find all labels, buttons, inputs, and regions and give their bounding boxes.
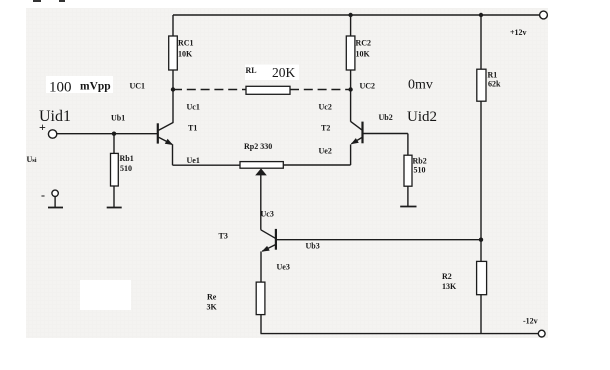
terminal -12v xyxy=(538,330,545,337)
white patch bottom-left xyxy=(80,280,131,310)
svg-text:Rb2: Rb2 xyxy=(413,157,427,166)
wire: RC2 top lead xyxy=(350,15,352,36)
wire: Rp2 right to T2 emitter xyxy=(283,164,350,166)
resistor RC2 xyxy=(346,36,355,70)
wire: T3 emitter to Re xyxy=(260,251,262,282)
wire: R2 bottom lead to -12v rail xyxy=(480,295,482,334)
svg-text:510: 510 xyxy=(120,164,132,173)
svg-text:UC2: UC2 xyxy=(360,82,376,91)
wire: RC1 bottom lead to node UC1 xyxy=(172,70,174,90)
node Ub3 junction at R1/R2 xyxy=(479,238,483,242)
svg-text:+12v: +12v xyxy=(510,28,527,37)
wire: Rb1 bottom lead to ground xyxy=(113,186,115,207)
node Ub1 junction xyxy=(112,132,116,136)
svg-text:Uc2: Uc2 xyxy=(319,103,332,112)
svg-text:Ub2: Ub2 xyxy=(379,113,393,122)
transistor T2 collector diagonal xyxy=(351,121,362,129)
wire: R1 top lead from rail xyxy=(480,15,482,69)
wire: +12V top rail xyxy=(173,14,540,16)
transistor T3 base bar xyxy=(275,229,277,250)
white label patch behind RL 20K xyxy=(245,65,299,81)
resistor Rb2 xyxy=(404,155,412,186)
svg-text:T2: T2 xyxy=(321,124,330,133)
svg-text:Ub3: Ub3 xyxy=(306,242,320,251)
node UC1 junction xyxy=(171,87,175,91)
wire: T2 base lead to Rb2 xyxy=(363,133,408,135)
wire: T1 emitter vertical xyxy=(172,144,174,165)
wire: dashed link node UC1 to RL xyxy=(173,89,246,91)
wire: T2 emitter vertical xyxy=(350,144,352,165)
svg-text:13K: 13K xyxy=(442,282,457,291)
wire: minus terminal to ground xyxy=(54,196,56,207)
svg-text:RL: RL xyxy=(246,66,257,75)
transistor T1 base bar xyxy=(157,123,159,143)
resistor R1 xyxy=(477,69,486,101)
svg-text:RC1: RC1 xyxy=(178,39,194,48)
node junction on top rail at R1 xyxy=(479,13,483,17)
transistor T1 emitter diagonal xyxy=(159,137,172,144)
terminal -input xyxy=(52,190,58,196)
svg-text:Ub1: Ub1 xyxy=(111,114,125,123)
svg-text:20K: 20K xyxy=(272,65,296,80)
svg-text:mVpp: mVpp xyxy=(80,81,111,93)
wire: input Uid1 to base of T1 xyxy=(57,133,158,135)
wire: RC1 top lead xyxy=(172,15,174,36)
terminal +12v xyxy=(540,11,548,19)
transistor T2 emitter diagonal xyxy=(351,138,361,144)
svg-text:Uid2: Uid2 xyxy=(407,109,437,125)
svg-text:Uc1: Uc1 xyxy=(187,103,200,112)
wire: Re bottom lead to -12v rail xyxy=(260,315,262,334)
resistor Rb1 xyxy=(111,153,119,186)
svg-text:0mv: 0mv xyxy=(408,78,433,93)
node junction on top rail at RC2 xyxy=(348,13,352,17)
svg-text:Usi: Usi xyxy=(27,155,37,164)
wire: T3 base lead to node Ub3 xyxy=(276,239,481,241)
svg-text:Re: Re xyxy=(207,293,217,302)
wire: -12V bottom rail xyxy=(261,333,539,335)
svg-text:R1: R1 xyxy=(488,71,498,80)
wire: dashed link RL to node UC2 xyxy=(290,89,351,91)
transistor T1 emitter arrowhead xyxy=(165,139,173,145)
svg-text:Rp2 330: Rp2 330 xyxy=(244,142,272,151)
transistor T2 emitter arrowhead xyxy=(351,138,359,144)
white label patch behind 100 mVpp xyxy=(46,76,113,93)
svg-text:Rb1: Rb1 xyxy=(120,154,134,163)
svg-text:Ue2: Ue2 xyxy=(319,147,332,156)
ground below minus terminal xyxy=(48,207,63,209)
svg-text:UC1: UC1 xyxy=(130,82,146,91)
resistor RC1 xyxy=(169,36,178,70)
svg-text:T1: T1 xyxy=(188,124,197,133)
transistor T3 emitter arrowhead xyxy=(262,246,270,252)
wire: T1 emitter to Rp2 left xyxy=(173,164,241,166)
wire: Rb2 top lead xyxy=(407,134,409,156)
wire: T2 collector vertical from node UC2 xyxy=(350,90,352,122)
wire: Rp2 wiper down to T3 collector xyxy=(260,175,262,230)
potentiometer Rp2 wiper arrow xyxy=(255,168,267,175)
resistor RL xyxy=(246,86,290,94)
cropped text marks at top edge xyxy=(33,0,41,2)
svg-text:RC2: RC2 xyxy=(356,39,372,48)
transistor T1 collector diagonal xyxy=(159,122,174,130)
svg-text:3K: 3K xyxy=(207,303,218,312)
ground below Rb1 xyxy=(107,207,122,209)
wire: T1 collector vertical to node UC1 xyxy=(172,90,174,123)
svg-text:R2: R2 xyxy=(442,272,452,281)
svg-text:Ue1: Ue1 xyxy=(187,156,200,165)
transistor T3 collector diagonal xyxy=(261,230,275,238)
svg-text:T3: T3 xyxy=(219,232,228,241)
svg-text:10K: 10K xyxy=(356,50,371,59)
svg-text:Uc3: Uc3 xyxy=(261,210,274,219)
svg-text:62k: 62k xyxy=(488,80,501,89)
potentiometer Rp2 body xyxy=(240,162,283,169)
terminal +input Uid1 xyxy=(48,130,56,138)
svg-text:-12v: -12v xyxy=(523,317,538,326)
resistor Re xyxy=(256,282,265,315)
transistor T3 emitter diagonal xyxy=(262,245,275,252)
wire: RC2 bottom lead to node UC2 xyxy=(350,70,352,90)
wire: Rb1 top lead from node Ub1 xyxy=(113,134,115,154)
resistor R2 xyxy=(477,261,487,294)
wire: R1 bottom lead down to node Ub3 xyxy=(480,101,482,261)
svg-text:100: 100 xyxy=(49,80,72,96)
wire: Rb2 bottom lead to ground xyxy=(407,186,409,206)
svg-text:510: 510 xyxy=(414,166,426,175)
ground below Rb2 xyxy=(400,206,416,208)
transistor T2 base bar xyxy=(361,122,363,144)
svg-text:-: - xyxy=(41,188,45,202)
node UC2 junction xyxy=(348,87,352,91)
svg-text:10K: 10K xyxy=(178,50,193,59)
svg-text:Ue3: Ue3 xyxy=(277,263,290,272)
svg-text:+: + xyxy=(39,120,46,134)
